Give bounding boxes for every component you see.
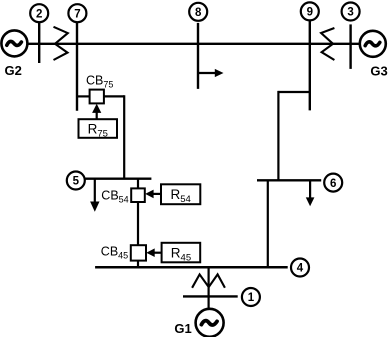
- svg-text:4: 4: [297, 263, 304, 275]
- generator G2: [1, 30, 27, 78]
- wire: CB75 to corner: [104, 95, 124, 97]
- relay R54: [161, 184, 200, 205]
- svg-text:9: 9: [307, 7, 313, 19]
- wire: bus9 to bus6 connector (horizontal): [278, 91, 309, 93]
- wire: bus7 to CB75: [77, 95, 90, 97]
- svg-text:2: 2: [36, 8, 42, 20]
- node 4: [291, 259, 309, 277]
- wire: main transmission line bus7-bus9: [27, 43, 360, 45]
- circuit breaker CB75: [86, 73, 113, 103]
- svg-text:7: 7: [74, 8, 80, 20]
- bus 9: [309, 21, 311, 111]
- bus 7: [76, 22, 78, 111]
- bus 2: [38, 23, 40, 64]
- transformer T27: [54, 27, 68, 60]
- circuit breaker CB54: [101, 188, 145, 204]
- load arrow at bus 5: [90, 179, 99, 212]
- node 8: [189, 3, 207, 21]
- node 1: [242, 288, 260, 306]
- node 3: [342, 3, 360, 21]
- arrow R45 to CB45: [146, 248, 161, 257]
- bus 8: [197, 23, 199, 89]
- transformer T93: [321, 28, 334, 60]
- bus 3: [349, 24, 351, 69]
- wire: CB45 to bus 4: [137, 261, 139, 268]
- node 6: [324, 174, 342, 192]
- wire: bus9 to bus6 connector (vertical): [277, 91, 279, 180]
- arrow R54 to CB54: [145, 190, 161, 199]
- relay R45: [162, 243, 201, 264]
- node 5: [67, 172, 85, 190]
- node 7: [68, 4, 86, 22]
- load arrow at bus 8: [198, 69, 224, 77]
- relay R75: [79, 119, 118, 139]
- bus 6: [257, 179, 321, 181]
- bus 5: [85, 177, 152, 179]
- svg-text:8: 8: [195, 7, 202, 19]
- wire: bus5 to CB54: [137, 179, 139, 189]
- bus 4: [95, 266, 288, 269]
- svg-text:5: 5: [73, 176, 80, 188]
- svg-text:G3: G3: [370, 63, 387, 78]
- transformer T41: [192, 274, 225, 287]
- wire: corner down to bus 5: [123, 95, 125, 178]
- svg-text:3: 3: [347, 7, 353, 19]
- wire: CB54 to CB45: [137, 202, 139, 245]
- wire: bus4 to G1: [208, 267, 210, 309]
- node 2: [30, 4, 48, 22]
- circuit breaker CB45: [101, 245, 146, 261]
- load arrow at bus 6: [306, 180, 315, 206]
- svg-text:G1: G1: [174, 321, 191, 336]
- svg-text:G2: G2: [5, 63, 22, 78]
- generator G3: [360, 31, 388, 79]
- generator G1: [174, 309, 223, 337]
- svg-text:1: 1: [248, 292, 255, 304]
- bus 1: [183, 295, 238, 297]
- node 9: [301, 2, 319, 20]
- wire: bus6 to bus4: [267, 180, 269, 267]
- arrow R75 to CB75: [92, 104, 101, 120]
- svg-text:6: 6: [330, 178, 336, 190]
